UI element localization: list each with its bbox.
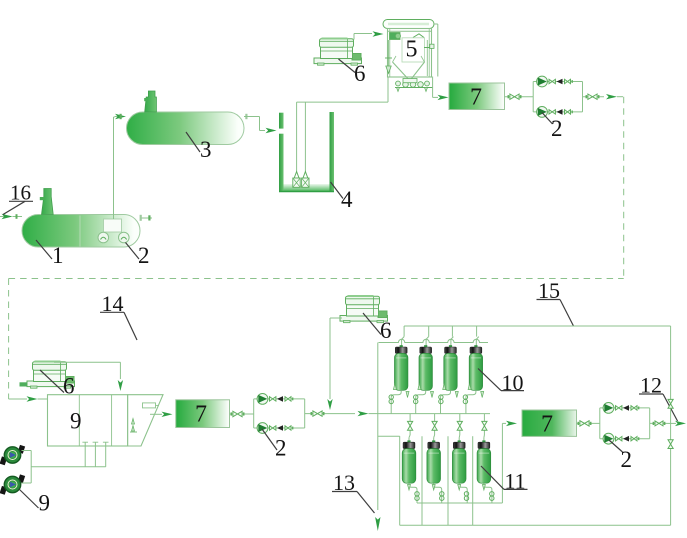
label 2 bottom-right pump skid bbox=[609, 440, 632, 472]
left drain riser 13 line bbox=[375, 343, 400, 532]
clarifier U5 right piping bbox=[424, 24, 438, 77]
flotation tank T9 body bbox=[48, 395, 164, 446]
pump 2c bbox=[257, 394, 268, 405]
label 2 tank1 pumps bbox=[126, 243, 150, 269]
sludge pump 9a bbox=[0, 441, 25, 470]
inlet arrow 16 bbox=[0, 214, 22, 219]
tank T4 diffuser left bbox=[293, 172, 300, 188]
bank11 outlet valves bbox=[415, 492, 494, 501]
filter vessel 11-4 bbox=[477, 440, 491, 483]
label 6 bottom-right bbox=[363, 313, 392, 343]
label 3 bbox=[186, 132, 212, 162]
label 11 bbox=[481, 466, 528, 494]
filter vessel 10-1 bbox=[395, 345, 408, 390]
label 1 bbox=[36, 240, 64, 268]
backwash top manifold bbox=[404, 326, 670, 337]
valve after filter7 top bbox=[508, 94, 522, 99]
dashed recycle line 14 right vertical bbox=[617, 97, 624, 279]
dosing unit 6 bottom-left bbox=[27, 361, 75, 389]
bottom drain header bbox=[400, 524, 671, 526]
pump skid 2 (top) frame bbox=[533, 82, 582, 112]
tank T9 skimmer box bbox=[143, 403, 160, 408]
dosing unit 6 top bbox=[314, 38, 362, 66]
check valves top branch b bbox=[549, 109, 573, 115]
label 2 top pump skid bbox=[542, 113, 563, 142]
tank T1 right nozzle bbox=[140, 215, 152, 221]
bank10 cap stubs bbox=[402, 339, 477, 347]
svg-text:2: 2 bbox=[621, 447, 633, 472]
label 2 bottom-left pump skid bbox=[262, 429, 287, 461]
pump skid bl outlet bbox=[305, 411, 378, 416]
tank T9 outlet arrow to filter7 bbox=[150, 412, 173, 417]
svg-text:6: 6 bbox=[354, 61, 366, 86]
svg-text:7: 7 bbox=[541, 412, 553, 438]
filter F7 top bbox=[449, 83, 505, 110]
tank T3 chimney bbox=[144, 91, 156, 112]
check valves branch f bbox=[616, 436, 640, 442]
label 16 bbox=[3, 181, 33, 215]
filter vessel 10-4 bbox=[469, 345, 482, 390]
svg-text:9: 9 bbox=[39, 491, 51, 516]
svg-text:5: 5 bbox=[406, 37, 418, 63]
clarifier U5 bottom scraper gear bbox=[395, 79, 433, 92]
dosing unit 6 bottom-right bbox=[340, 295, 388, 323]
pump 2f bbox=[603, 433, 614, 444]
pipe dosing6b down to main line bbox=[327, 318, 342, 410]
tank T4 bottom liquid bbox=[279, 184, 334, 192]
label 12 bbox=[639, 373, 678, 422]
label 14 bbox=[100, 291, 137, 340]
svg-text:2: 2 bbox=[138, 243, 150, 268]
tank T3 inlet arrow bbox=[115, 114, 126, 119]
pipe dosing6 to clarifier5 bbox=[354, 31, 384, 39]
check valves branch e bbox=[616, 405, 640, 411]
sludge pump 9b bbox=[0, 470, 25, 499]
pipes pumps9 bbox=[22, 451, 32, 484]
check valves branch c bbox=[270, 396, 294, 402]
pipe clarifier5 outlet to filter7 bbox=[433, 77, 449, 101]
bank11 bottom piping bbox=[408, 483, 492, 503]
svg-text:6: 6 bbox=[380, 318, 392, 343]
svg-text:2: 2 bbox=[275, 436, 287, 461]
clarifier U5 left sampling funnel bbox=[385, 40, 392, 74]
bank10 outlet valves bbox=[389, 395, 468, 404]
tank T9 internal marks bbox=[130, 419, 137, 433]
check valves branch d bbox=[270, 425, 294, 431]
svg-text:7: 7 bbox=[470, 85, 482, 111]
svg-text:9: 9 bbox=[70, 409, 82, 434]
pump skid 2 top outlet bbox=[583, 94, 618, 99]
backwash drain verticals bbox=[400, 436, 473, 525]
filter vessel 11-1 bbox=[402, 440, 416, 483]
check valves top branch a bbox=[549, 79, 573, 85]
svg-text:10: 10 bbox=[502, 370, 524, 395]
pipe filter7 to pumpskid bbox=[505, 96, 534, 98]
label 5 bbox=[406, 37, 418, 63]
bank11 outlet manifold bbox=[417, 421, 517, 503]
clarifier U5 body bbox=[388, 29, 432, 78]
svg-text:7: 7 bbox=[195, 402, 207, 428]
tank T4 left wall bbox=[279, 113, 284, 192]
pump 2a top bbox=[537, 76, 548, 87]
dashed recycle line 14 left vertical bbox=[8, 279, 10, 400]
filter vessel 10-3 bbox=[444, 345, 457, 390]
label 7 bottom-left bbox=[195, 402, 207, 428]
svg-text:11: 11 bbox=[505, 469, 526, 494]
pump 2d bbox=[257, 423, 268, 434]
tank T1 internal pump P2 bbox=[119, 232, 130, 243]
tank T1 internal pump box bbox=[104, 219, 122, 232]
filter F7 bottom-right bbox=[522, 410, 577, 436]
tank T4 diffuser right bbox=[302, 172, 309, 188]
filter F7 bottom-left bbox=[176, 400, 230, 428]
pipe dosing6left to tank9 bbox=[54, 362, 123, 391]
label 9 pumps bbox=[19, 489, 50, 516]
pipe filter7bl to pump skid bbox=[230, 411, 254, 416]
label 10 bbox=[478, 369, 524, 396]
tank T9 bottom nozzles bbox=[31, 442, 108, 467]
svg-text:1: 1 bbox=[52, 243, 64, 268]
tank T4 riser pipes bbox=[297, 102, 388, 172]
upper manifold with hops bbox=[379, 337, 489, 343]
label 6 bottom-left bbox=[40, 370, 75, 399]
feed manifold middle bbox=[378, 413, 490, 415]
pump skid 2 (bottom-right) frame bbox=[600, 408, 650, 439]
recycle into tank9 arrow bbox=[9, 396, 48, 401]
label 7 top bbox=[470, 85, 482, 111]
clarifier U5 top-right baffle bbox=[413, 34, 424, 38]
clarifier U5 top launder bbox=[383, 20, 434, 29]
tank T3 bbox=[127, 112, 245, 145]
dashed recycle line 14 horizontal bbox=[9, 278, 624, 280]
svg-text:2: 2 bbox=[551, 116, 563, 141]
pump 2e bbox=[603, 403, 614, 414]
label 4 bbox=[331, 182, 354, 212]
pump skid 2 (bottom-left) frame bbox=[254, 399, 305, 428]
label 6 top bbox=[339, 59, 366, 86]
label 7 bottom-right bbox=[541, 412, 553, 438]
tank T1 chimney bbox=[40, 189, 53, 215]
tank T1 bbox=[22, 215, 140, 248]
label 9 tank bbox=[70, 409, 82, 434]
pump 2b top bbox=[537, 107, 548, 118]
pipe filter7br to pump skid bbox=[577, 421, 600, 426]
filter vessel 11-2 bbox=[427, 440, 441, 483]
tank T4 right wall bbox=[330, 112, 335, 192]
clarifier U5 inner draft tube bbox=[402, 38, 425, 62]
clarifier U5 feed mixer bbox=[390, 33, 401, 40]
pipe clarifier5 drain to tank4 bbox=[387, 77, 389, 102]
bank11 feed drops with valves bbox=[408, 414, 488, 442]
outlet 12 piping bbox=[650, 421, 686, 426]
pipe tank3 to tank4 bbox=[244, 114, 277, 133]
label 15 bbox=[537, 278, 574, 326]
pipe tank1 to tank3 riser bbox=[114, 117, 115, 219]
bank10 bottom piping and valves bbox=[391, 384, 484, 414]
loop 15 right vertical bbox=[668, 326, 673, 525]
tank T1 internal pump P1 bbox=[98, 232, 109, 243]
filter vessel 10-2 bbox=[419, 345, 432, 390]
svg-text:3: 3 bbox=[200, 137, 212, 162]
label 13 bbox=[332, 470, 375, 513]
clarifier U5 cone bbox=[393, 56, 425, 81]
dosing unit 6 bottom-left pump pad bbox=[20, 382, 28, 386]
filter vessel 11-3 bbox=[452, 440, 466, 483]
svg-text:4: 4 bbox=[341, 187, 353, 212]
